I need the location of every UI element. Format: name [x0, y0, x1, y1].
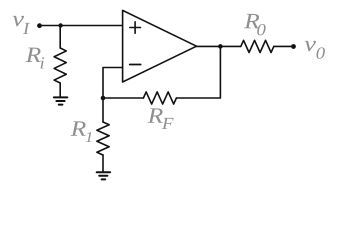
- resistor Ri: [54, 48, 66, 83]
- wire R1 top: [102, 98, 104, 122]
- resistor R1: [97, 122, 109, 155]
- svg-text:i: i: [39, 53, 44, 72]
- wire Ri top: [59, 26, 61, 49]
- wire R1 bottom: [102, 155, 104, 172]
- svg-text:0: 0: [256, 20, 265, 39]
- ground (under R1): [97, 172, 110, 179]
- wire feedback bottom: [103, 97, 143, 99]
- op-amp - pin symbol: [130, 64, 141, 66]
- terminal dot vO: [291, 44, 296, 49]
- wire to vO terminal: [274, 45, 294, 47]
- svg-text:F: F: [161, 114, 175, 133]
- junction node A (top of Ri): [58, 23, 62, 27]
- wire Ri bottom: [59, 83, 61, 97]
- svg-text:I: I: [22, 19, 30, 38]
- resistor RO: [241, 40, 274, 52]
- resistor RF: [143, 92, 176, 104]
- junction node B (inverting node): [101, 96, 106, 101]
- ground (under Ri): [54, 97, 67, 104]
- wire - input stub: [103, 68, 123, 99]
- svg-text:0: 0: [316, 43, 325, 62]
- svg-text:v: v: [304, 32, 316, 56]
- terminal dot vI: [37, 23, 42, 28]
- svg-text:1: 1: [85, 130, 93, 146]
- wire vI to op-amp + input: [40, 25, 123, 27]
- junction node C (output node): [218, 44, 223, 49]
- wire op-amp output: [197, 45, 241, 47]
- op-amp + pin symbol: [130, 22, 141, 33]
- wire feedback right: [176, 46, 220, 98]
- op-amp U1: [123, 10, 197, 82]
